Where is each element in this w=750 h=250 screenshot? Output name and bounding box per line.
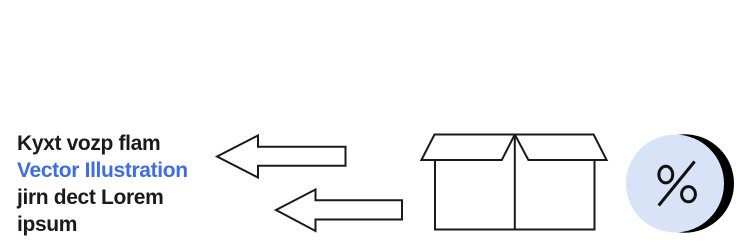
percent badge blue disc: [626, 135, 724, 233]
text block: [17, 130, 188, 238]
arrow 2: [276, 190, 402, 232]
arrow 1: [217, 136, 346, 178]
box center line: [514, 135, 516, 230]
percent badge black crescent: [636, 134, 734, 232]
box right flap: [515, 135, 607, 161]
box left flap: [421, 135, 514, 161]
open box body: [421, 135, 606, 230]
percent sign: [659, 162, 696, 206]
